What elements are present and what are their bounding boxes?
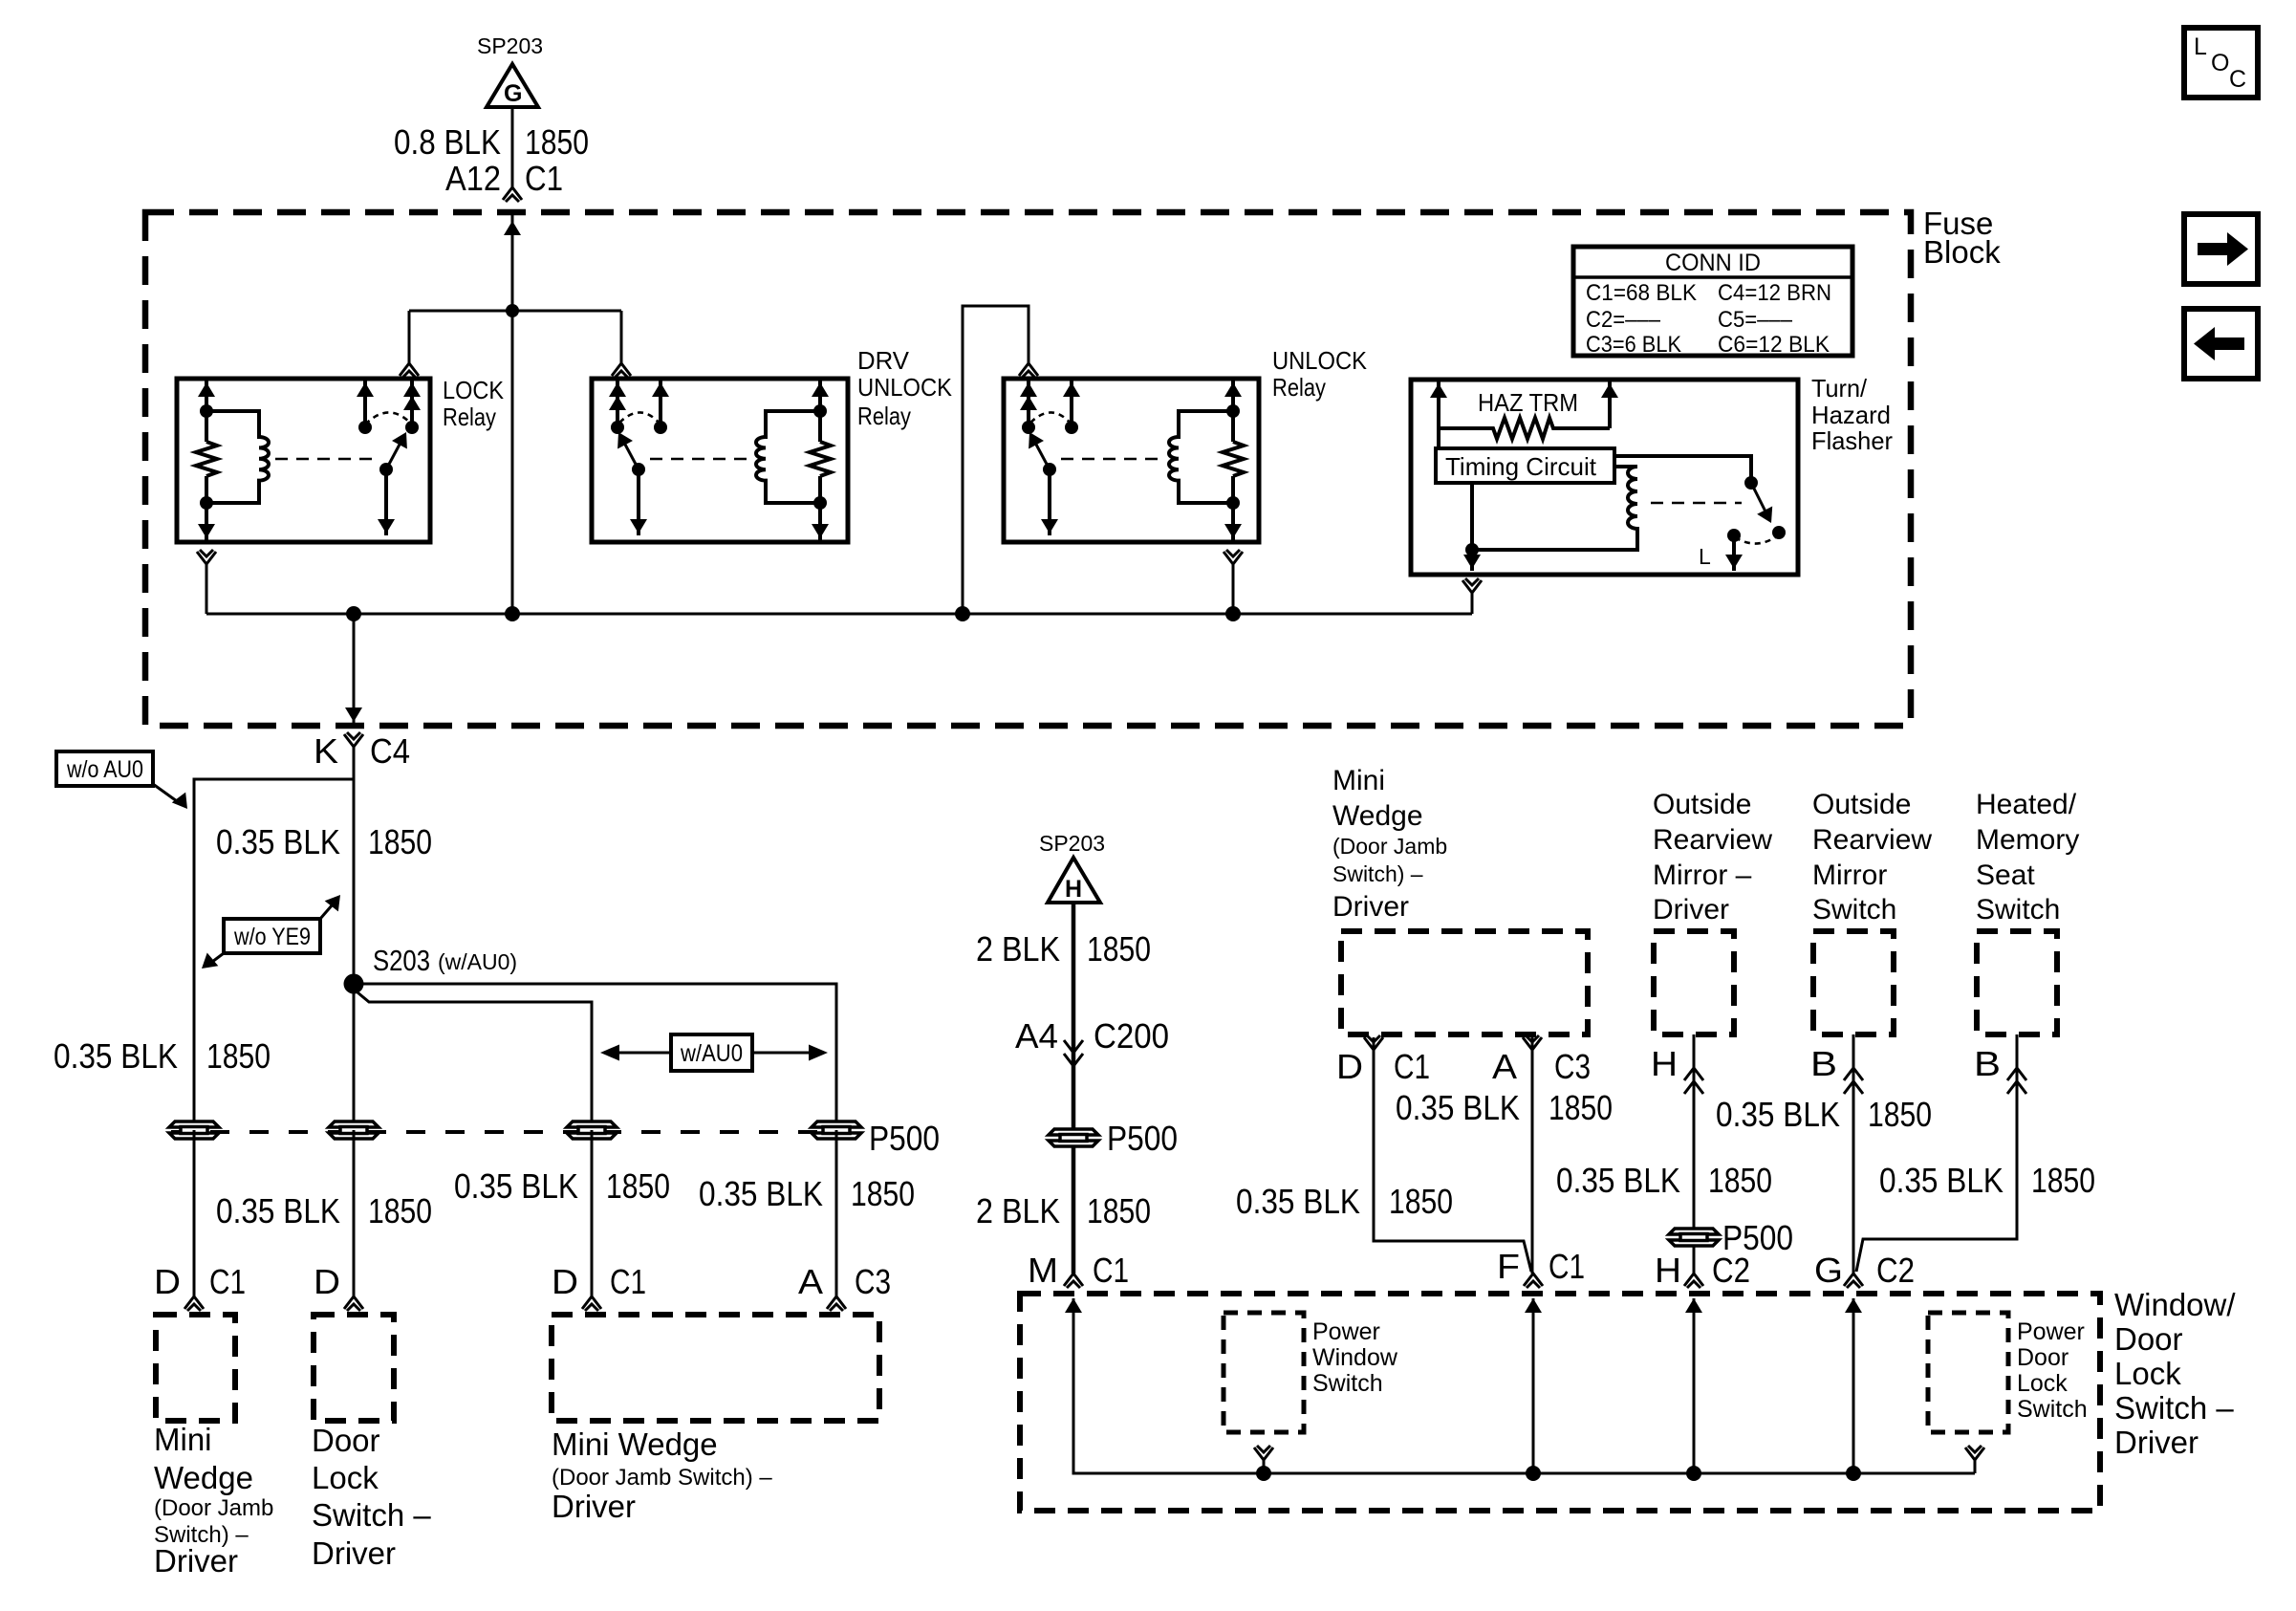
dashed actuation link (DRV UNLOCK relay) bbox=[650, 458, 753, 460]
flasher coil feed from timing circuit bbox=[1614, 465, 1637, 468]
coil (DRV UNLOCK relay) bbox=[756, 411, 820, 503]
svg-text:Relay: Relay bbox=[1272, 373, 1326, 402]
svg-text:0.35 BLK: 0.35 BLK bbox=[54, 1036, 178, 1076]
wire: mini wedge A C3 lead to window/door lock switch bbox=[1531, 1037, 1534, 1274]
wire: power door lock switch ground stub bbox=[1965, 1446, 1984, 1460]
svg-text:1850: 1850 bbox=[206, 1036, 271, 1076]
svg-text:2 BLK: 2 BLK bbox=[976, 929, 1060, 969]
svg-text:1850: 1850 bbox=[1708, 1161, 1772, 1200]
svg-text:Power: Power bbox=[1312, 1318, 1380, 1345]
svg-text:1850: 1850 bbox=[1087, 1191, 1151, 1230]
DRV UNLOCK switch terminal A (feed) bbox=[616, 381, 619, 427]
svg-text:Lock: Lock bbox=[2017, 1370, 2068, 1397]
resistor (DRV UNLOCK relay suppression) bbox=[810, 442, 831, 476]
svg-text:A: A bbox=[1492, 1047, 1517, 1086]
wire: grommet to door lock switch driver bbox=[353, 1130, 356, 1296]
svg-text:Seat: Seat bbox=[1976, 860, 2035, 891]
ground triangle H (SP203) bbox=[1048, 858, 1100, 903]
svg-text:Wedge: Wedge bbox=[154, 1460, 253, 1495]
svg-text:DRV: DRV bbox=[857, 346, 910, 375]
svg-text:Driver: Driver bbox=[154, 1543, 238, 1578]
svg-text:Outside: Outside bbox=[1653, 789, 1751, 820]
svg-text:(Door Jamb: (Door Jamb bbox=[1332, 834, 1447, 859]
svg-text:Door: Door bbox=[312, 1423, 380, 1458]
wire: w/o AU0 branch bbox=[194, 779, 354, 1130]
wire: mini wedge D C1 lead to window/door lock switch bbox=[1374, 1037, 1531, 1272]
svg-text:D: D bbox=[154, 1262, 181, 1301]
svg-text:Driver: Driver bbox=[552, 1489, 636, 1524]
svg-text:w/o YE9: w/o YE9 bbox=[233, 924, 311, 950]
svg-text:2 BLK: 2 BLK bbox=[976, 1191, 1060, 1230]
svg-text:0.35 BLK: 0.35 BLK bbox=[216, 822, 340, 861]
svg-text:HAZ TRM: HAZ TRM bbox=[1478, 388, 1578, 417]
wire: ground exit K C4 from fuse block bbox=[353, 614, 356, 724]
wire: branch down to DRV UNLOCK relay bbox=[620, 311, 623, 363]
left arrow icon box bbox=[2184, 309, 2258, 379]
svg-text:D: D bbox=[552, 1262, 578, 1301]
svg-text:1850: 1850 bbox=[1389, 1182, 1453, 1221]
switch arm (LOCK relay) bbox=[386, 443, 401, 469]
svg-text:UNLOCK: UNLOCK bbox=[1272, 346, 1368, 375]
svg-text:0.35 BLK: 0.35 BLK bbox=[699, 1174, 823, 1213]
svg-text:Flasher: Flasher bbox=[1811, 426, 1893, 455]
svg-text:Switch) –: Switch) – bbox=[1332, 861, 1423, 886]
svg-text:1850: 1850 bbox=[368, 822, 432, 861]
wire: branch bus to lock and drv unlock relays bbox=[409, 310, 621, 313]
svg-text:Switch –: Switch – bbox=[312, 1497, 431, 1533]
svg-text:Lock: Lock bbox=[2114, 1356, 2181, 1391]
svg-text:C5=–––: C5=––– bbox=[1718, 307, 1793, 333]
wire: branch down to LOCK relay bbox=[408, 311, 411, 363]
wire: G C2 lead inside switch bbox=[1852, 1298, 1855, 1473]
svg-text:0.35 BLK: 0.35 BLK bbox=[1879, 1161, 2004, 1200]
svg-text:C1=68 BLK: C1=68 BLK bbox=[1586, 280, 1697, 306]
svg-text:1850: 1850 bbox=[1549, 1088, 1613, 1127]
svg-text:Driver: Driver bbox=[1653, 894, 1729, 925]
svg-text:L: L bbox=[2194, 33, 2207, 60]
svg-text:C1: C1 bbox=[209, 1262, 246, 1301]
svg-text:Switch: Switch bbox=[1312, 1370, 1383, 1397]
svg-text:C2: C2 bbox=[1712, 1251, 1750, 1290]
svg-text:Hazard: Hazard bbox=[1811, 401, 1891, 429]
svg-text:w/AU0: w/AU0 bbox=[680, 1040, 743, 1067]
svg-text:w/o AU0: w/o AU0 bbox=[66, 756, 143, 783]
resistor (UNLOCK relay suppression) bbox=[1223, 442, 1244, 476]
svg-text:C2=–––: C2=––– bbox=[1586, 307, 1661, 333]
svg-text:C3: C3 bbox=[855, 1262, 891, 1301]
flasher L output terminal bbox=[1727, 529, 1741, 542]
svg-text:P500: P500 bbox=[1107, 1119, 1178, 1158]
svg-text:H: H bbox=[1651, 1044, 1678, 1083]
svg-text:D: D bbox=[314, 1262, 340, 1301]
LOC icon box bbox=[2184, 28, 2258, 98]
svg-text:Rearview: Rearview bbox=[1653, 824, 1772, 856]
svg-text:Rearview: Rearview bbox=[1812, 824, 1932, 856]
flasher left terminal bbox=[1437, 381, 1440, 448]
svg-text:C3=6 BLK: C3=6 BLK bbox=[1586, 332, 1681, 358]
svg-text:Driver: Driver bbox=[2114, 1425, 2199, 1460]
svg-text:C1: C1 bbox=[1093, 1251, 1129, 1290]
node: bus junction at unlock coil return bbox=[1225, 606, 1241, 621]
LOCK relay switch terminal A bbox=[363, 381, 367, 427]
node: feed junction bbox=[506, 304, 519, 317]
svg-text:Relay: Relay bbox=[443, 403, 496, 431]
svg-text:C1: C1 bbox=[1549, 1247, 1585, 1286]
wire: riser feeding UNLOCK relay bbox=[963, 306, 1029, 614]
wire: heated seat switch B lead with jog to G C2 bbox=[1856, 1034, 2017, 1272]
svg-text:Window/: Window/ bbox=[2114, 1287, 2236, 1322]
svg-text:C4=12 BRN: C4=12 BRN bbox=[1718, 280, 1831, 306]
UNLOCK switch terminal A (feed) bbox=[1027, 381, 1030, 427]
svg-text:B: B bbox=[1974, 1044, 2001, 1083]
svg-text:K: K bbox=[314, 731, 338, 771]
svg-text:C1: C1 bbox=[610, 1262, 646, 1301]
svg-text:Mini: Mini bbox=[1332, 765, 1385, 796]
svg-text:UNLOCK: UNLOCK bbox=[857, 373, 953, 402]
svg-text:Door: Door bbox=[2114, 1321, 2183, 1357]
splice S203 bbox=[344, 974, 364, 994]
grommet P500 (w/o AU0 lead) bbox=[169, 1121, 219, 1139]
svg-text:1850: 1850 bbox=[851, 1174, 915, 1213]
svg-text:C4: C4 bbox=[370, 731, 410, 771]
svg-text:A12: A12 bbox=[445, 159, 501, 198]
svg-text:1850: 1850 bbox=[1087, 929, 1151, 969]
component box: mini wedge door jamb switch driver (wide) bbox=[552, 1315, 879, 1421]
grommet P500 (door lock switch lead) bbox=[329, 1121, 379, 1139]
component box: power door lock switch bbox=[1928, 1313, 2008, 1432]
dashed actuation link (UNLOCK relay) bbox=[1061, 458, 1166, 460]
svg-text:D: D bbox=[1336, 1047, 1363, 1086]
wire: grommet to mini wedge driver A C3 bbox=[835, 1130, 838, 1296]
svg-text:C2: C2 bbox=[1876, 1251, 1915, 1290]
connector C200 pass-through chevrons bbox=[1064, 1040, 1083, 1066]
svg-text:0.35 BLK: 0.35 BLK bbox=[1236, 1182, 1360, 1221]
svg-text:0.35 BLK: 0.35 BLK bbox=[1556, 1161, 1680, 1200]
svg-text:Relay: Relay bbox=[857, 402, 911, 430]
callout w/AU0 with double arrow bbox=[671, 1034, 752, 1071]
wire: grommet to mini wedge driver D C1 bbox=[591, 1130, 594, 1296]
wire: S203 branch to A C3 lead bbox=[354, 984, 836, 1130]
coil (UNLOCK relay) bbox=[1169, 411, 1233, 503]
svg-text:Heated/: Heated/ bbox=[1976, 789, 2077, 820]
svg-text:0.35 BLK: 0.35 BLK bbox=[216, 1191, 340, 1230]
component box: outside rearview mirror switch bbox=[1813, 931, 1894, 1034]
callout box w/o YE9 bbox=[224, 919, 320, 953]
svg-text:P500: P500 bbox=[869, 1119, 940, 1158]
wire: main ground feed from fuse block to SP203 G splice bbox=[511, 108, 514, 187]
svg-text:H: H bbox=[1655, 1251, 1681, 1290]
wire: S203 branch to D C1 lead bbox=[357, 992, 592, 1130]
DRV UNLOCK coil/resistor terminal bbox=[818, 381, 822, 442]
svg-text:1850: 1850 bbox=[2031, 1161, 2095, 1200]
dashed actuation link (LOCK relay) bbox=[275, 458, 380, 460]
svg-text:A: A bbox=[798, 1262, 823, 1301]
svg-text:M: M bbox=[1028, 1251, 1058, 1290]
svg-text:0.35 BLK: 0.35 BLK bbox=[1396, 1088, 1520, 1127]
svg-text:Switch –: Switch – bbox=[2114, 1390, 2234, 1426]
wire: K C4 ground lead down to splice S203 bbox=[353, 747, 356, 1130]
svg-text:1850: 1850 bbox=[525, 122, 589, 162]
component box: mini wedge door jamb switch driver (left) bbox=[156, 1315, 235, 1421]
svg-text:C3: C3 bbox=[1554, 1047, 1591, 1086]
wire: power window switch ground stub bbox=[1254, 1446, 1273, 1460]
dashed throw arc (UNLOCK relay) bbox=[1030, 412, 1072, 425]
svg-text:Mirror: Mirror bbox=[1812, 860, 1887, 891]
LOCK relay coil branch terminal (top) bbox=[205, 381, 208, 442]
svg-text:0.8 BLK: 0.8 BLK bbox=[394, 122, 501, 162]
resistor (LOCK relay suppression) bbox=[196, 442, 217, 476]
switch arm (UNLOCK relay) bbox=[1035, 443, 1050, 469]
DRV UNLOCK switch terminal B bbox=[659, 381, 662, 427]
grommet P500 (H lead) bbox=[1669, 1229, 1719, 1246]
node: bus junction at unlock riser bbox=[955, 606, 970, 621]
wire: feed inside fuse block with up arrow bbox=[511, 214, 514, 614]
svg-text:Memory: Memory bbox=[1976, 824, 2079, 856]
wire: 2 BLK ground lead from SP203 H bbox=[1072, 903, 1076, 1274]
svg-text:SP203: SP203 bbox=[1039, 831, 1105, 856]
component box: mini wedge door jamb switch driver (upper right) bbox=[1341, 931, 1588, 1034]
fuse block dashed border bbox=[145, 212, 1911, 726]
UNLOCK coil/resistor terminal bbox=[1231, 381, 1235, 442]
svg-text:LOCK: LOCK bbox=[443, 376, 505, 404]
coil (LOCK relay) bbox=[206, 411, 269, 503]
DRV UNLOCK relay box bbox=[592, 379, 848, 542]
svg-text:Driver: Driver bbox=[312, 1535, 396, 1571]
component box: power window switch bbox=[1224, 1313, 1304, 1432]
svg-text:B: B bbox=[1810, 1044, 1837, 1083]
svg-text:Driver: Driver bbox=[1332, 891, 1409, 923]
svg-text:C200: C200 bbox=[1094, 1016, 1169, 1056]
svg-text:C1: C1 bbox=[1394, 1047, 1430, 1086]
CONN ID table bbox=[1573, 247, 1852, 356]
right arrow icon box bbox=[2184, 214, 2258, 284]
UNLOCK relay box bbox=[1004, 379, 1259, 542]
switch arm (flasher) bbox=[1751, 483, 1765, 512]
switch arm (DRV UNLOCK relay) bbox=[624, 443, 639, 469]
svg-text:0.35 BLK: 0.35 BLK bbox=[454, 1166, 578, 1206]
svg-text:Turn/: Turn/ bbox=[1811, 374, 1868, 403]
svg-text:(Door Jamb Switch) –: (Door Jamb Switch) – bbox=[552, 1465, 772, 1491]
svg-text:Mirror –: Mirror – bbox=[1653, 860, 1752, 891]
connector chevron C1 at fuse block bbox=[503, 187, 522, 202]
node: bus junction at main feed bbox=[505, 606, 520, 621]
wire: H C2 lead inside switch bbox=[1693, 1298, 1696, 1473]
node: bus junction at K feed bbox=[346, 606, 361, 621]
svg-text:CONN ID: CONN ID bbox=[1665, 250, 1761, 276]
dashed throw arc (flasher) bbox=[1735, 535, 1778, 544]
svg-text:Switch: Switch bbox=[2017, 1396, 2088, 1423]
svg-text:SP203: SP203 bbox=[477, 33, 543, 58]
svg-text:Lock: Lock bbox=[312, 1460, 379, 1495]
dashed actuation link (flasher) bbox=[1651, 502, 1742, 504]
flasher right terminal bbox=[1608, 381, 1612, 428]
svg-text:0.35 BLK: 0.35 BLK bbox=[1716, 1095, 1840, 1134]
svg-text:Mini Wedge: Mini Wedge bbox=[552, 1426, 718, 1462]
svg-text:O: O bbox=[2211, 50, 2229, 76]
svg-text:(w/AU0): (w/AU0) bbox=[438, 949, 517, 974]
svg-text:C1: C1 bbox=[525, 159, 563, 198]
wire: grommet to mini wedge driver (left) bbox=[193, 1130, 196, 1296]
svg-text:C6=12 BLK: C6=12 BLK bbox=[1718, 332, 1830, 358]
svg-text:Mini: Mini bbox=[154, 1422, 212, 1457]
wire: mirror driver H lead bbox=[1693, 1034, 1696, 1274]
ground triangle G (SP203) bbox=[487, 64, 538, 107]
svg-text:Switch: Switch bbox=[1976, 894, 2060, 925]
svg-text:Power: Power bbox=[2017, 1318, 2085, 1345]
svg-text:S203: S203 bbox=[373, 944, 430, 977]
flasher switch feed bbox=[1614, 456, 1751, 483]
svg-text:Outside: Outside bbox=[1812, 789, 1911, 820]
svg-text:Wedge: Wedge bbox=[1332, 800, 1423, 832]
svg-text:A4: A4 bbox=[1015, 1016, 1058, 1056]
svg-text:(Door Jamb: (Door Jamb bbox=[154, 1495, 273, 1521]
UNLOCK relay ground exit chevron bbox=[1224, 550, 1243, 564]
LOCK relay ground exit chevron bbox=[197, 550, 216, 564]
coil (flasher) bbox=[1472, 467, 1637, 550]
svg-text:Timing Circuit: Timing Circuit bbox=[1445, 452, 1597, 481]
wire: mirror switch B lead bbox=[1852, 1034, 1855, 1274]
svg-text:F: F bbox=[1497, 1247, 1520, 1286]
dashed throw arc (LOCK relay) bbox=[365, 412, 410, 425]
svg-text:Door: Door bbox=[2017, 1344, 2069, 1371]
grommet P500 (D C1 lead) bbox=[567, 1121, 617, 1139]
flasher ground exit chevron bbox=[1462, 578, 1482, 593]
grommet P500 (2 BLK lead) bbox=[1049, 1129, 1098, 1146]
pass-through connector P500 dashed line bbox=[171, 1130, 841, 1134]
svg-text:1850: 1850 bbox=[368, 1191, 432, 1230]
LOCK relay switch terminal B (feed) bbox=[410, 381, 414, 427]
flasher ground branch from timing circuit bbox=[1470, 483, 1474, 571]
svg-text:1850: 1850 bbox=[1868, 1095, 1932, 1134]
Turn/Hazard Flasher box bbox=[1411, 380, 1798, 575]
svg-text:1850: 1850 bbox=[606, 1166, 670, 1206]
wire: F C1 lead inside switch bbox=[1532, 1298, 1535, 1473]
grommet P500 (A C3 lead) bbox=[812, 1121, 861, 1139]
svg-text:H: H bbox=[1065, 876, 1082, 903]
svg-text:G: G bbox=[504, 80, 522, 107]
component box: heated/memory seat switch bbox=[1977, 931, 2057, 1034]
svg-text:L: L bbox=[1699, 544, 1711, 569]
svg-text:Block: Block bbox=[1923, 234, 2001, 270]
Timing Circuit box bbox=[1436, 448, 1614, 483]
wire: M C1 lead inside switch to ground bus bbox=[1073, 1298, 1975, 1473]
wire: fuse block internal ground bus bbox=[206, 613, 1472, 616]
svg-text:G: G bbox=[1814, 1251, 1843, 1290]
svg-text:Switch: Switch bbox=[1812, 894, 1896, 925]
dashed throw arc (DRV UNLOCK relay) bbox=[619, 412, 661, 425]
callout box w/o AU0 bbox=[56, 751, 153, 786]
svg-text:Window: Window bbox=[1312, 1344, 1398, 1371]
svg-text:C: C bbox=[2229, 66, 2246, 93]
UNLOCK switch terminal B bbox=[1070, 381, 1073, 427]
component box: window/door lock switch driver bbox=[1020, 1294, 2100, 1511]
component box: outside rearview mirror driver bbox=[1654, 931, 1734, 1034]
LOCK relay box bbox=[177, 379, 430, 542]
component box: door lock switch driver bbox=[314, 1315, 394, 1421]
